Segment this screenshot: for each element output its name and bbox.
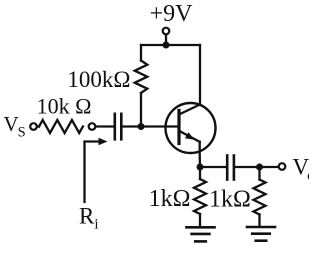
+9V terminal [163,28,170,35]
node: base junction [138,123,145,130]
wire: Vs terminal to 10k resistor [37,125,39,127]
node: output junction [256,164,263,171]
resistor 10kohm [39,120,83,133]
input node terminal [89,123,96,130]
Ri arrow [85,142,100,203]
capacitor C1 input coupling plate right [120,114,123,140]
wire: emitter node to RE resistor [199,167,201,179]
Ri arrowhead [99,138,108,146]
wire: terminal to coupling capacitor [96,125,114,127]
wire: output node to Vo terminal [260,166,279,168]
svg-text:VS: VS [4,112,26,141]
resistor R1 100kohm [135,61,148,93]
Vs input terminal [30,123,37,130]
ground left [187,227,215,241]
transistor Q1 base bar [177,111,180,144]
ground right [247,227,275,241]
wire: RL resistor to ground [258,215,260,226]
svg-text:1kΩ: 1kΩ [209,187,251,213]
wire: base node to transistor base [141,125,178,127]
capacitor C1 input coupling plate left [114,114,117,140]
wire: top rail [141,44,200,46]
node: emitter junction [197,164,204,171]
transistor Q1 body circle [166,103,216,153]
wire: 100k resistor to base node [140,93,142,127]
transistor Q1 emitter arrowhead [185,132,195,140]
wire: +9V terminal to top rail [165,35,167,45]
svg-text:100kΩ: 100kΩ [67,67,130,92]
transistor Q1 collector stroke [179,105,200,115]
svg-text:Ri: Ri [79,204,99,233]
node: top rail junction [163,42,170,49]
wire: capacitor to output node [235,166,260,168]
resistor RE 1kohm left [194,179,206,214]
wire: emitter down to node [199,142,202,167]
wire: emitter node to output capacitor [200,166,226,168]
svg-text:+9V: +9V [150,1,194,27]
wire: capacitor to base node [123,125,142,127]
wire: left branch to 100k resistor [140,45,142,61]
svg-text:Vo: Vo [293,155,310,185]
capacitor C2 output coupling plate left [226,156,229,180]
transistor Q1 emitter stroke [179,131,200,142]
wire: collector to top rail [199,45,201,105]
wire: output node to RL resistor [258,167,260,180]
svg-text:10k Ω: 10k Ω [37,94,92,119]
capacitor C2 output coupling plate right [233,156,236,180]
Vo output terminal [279,163,286,170]
resistor RL 1kohm right [254,180,266,215]
wire: RE resistor to ground [199,214,201,226]
svg-text:1kΩ: 1kΩ [149,186,191,212]
